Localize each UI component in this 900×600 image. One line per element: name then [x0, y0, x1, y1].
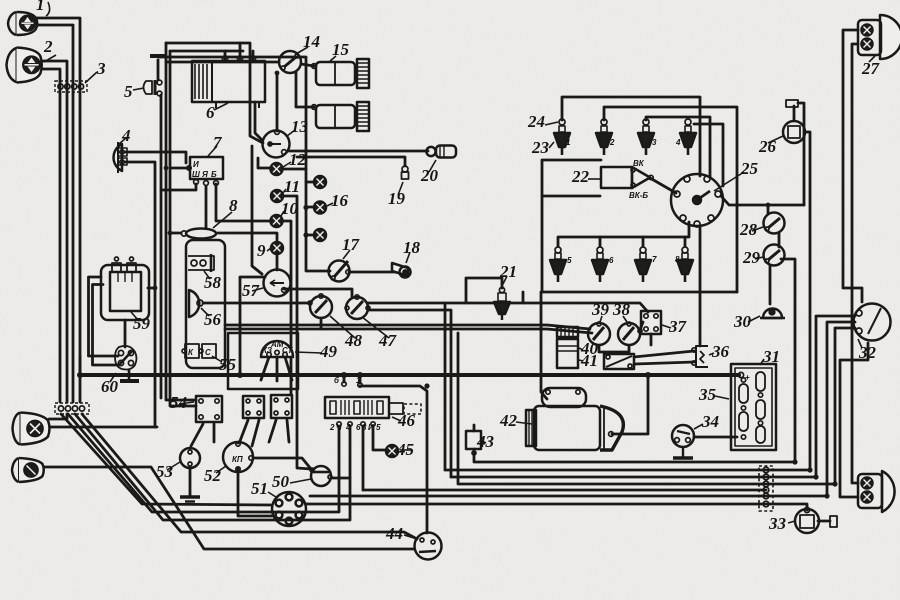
svg-text:28: 28	[739, 220, 758, 239]
svg-text:50: 50	[272, 472, 290, 491]
svg-text:14: 14	[303, 32, 320, 51]
svg-text:Ш: Ш	[192, 170, 200, 179]
svg-text:11: 11	[284, 177, 300, 196]
svg-text:56: 56	[204, 310, 222, 329]
svg-text:КП: КП	[232, 455, 243, 464]
svg-text:18: 18	[403, 238, 421, 257]
svg-text:48: 48	[344, 331, 363, 350]
svg-text:47: 47	[378, 331, 398, 350]
svg-text:СТ: СТ	[282, 346, 293, 355]
svg-text:27: 27	[861, 59, 881, 78]
svg-text:30: 30	[733, 312, 752, 331]
svg-text:16: 16	[331, 191, 349, 210]
svg-text:ВК-Б: ВК-Б	[629, 191, 648, 200]
svg-text:32: 32	[858, 343, 877, 362]
svg-text:4: 4	[345, 423, 351, 432]
svg-text:И: И	[193, 160, 199, 169]
svg-text:37: 37	[668, 317, 688, 336]
svg-text:ВК: ВК	[633, 159, 645, 168]
svg-text:1: 1	[566, 138, 571, 147]
svg-text:43: 43	[476, 432, 495, 451]
svg-text:21: 21	[499, 262, 517, 281]
svg-text:6: 6	[609, 256, 614, 265]
svg-text:24: 24	[527, 112, 545, 131]
svg-text:15: 15	[332, 40, 350, 59]
svg-text:39: 39	[591, 300, 610, 319]
svg-text:2: 2	[329, 423, 335, 432]
svg-text:45: 45	[396, 440, 415, 459]
svg-text:42: 42	[499, 411, 518, 430]
svg-text:12: 12	[289, 150, 307, 169]
svg-text:2: 2	[609, 138, 615, 147]
svg-text:1: 1	[356, 376, 361, 385]
svg-text:51: 51	[251, 479, 268, 498]
svg-text:С: С	[205, 348, 211, 357]
svg-text:КЗ: КЗ	[262, 346, 272, 355]
svg-text:4: 4	[675, 138, 681, 147]
svg-text:5: 5	[124, 82, 133, 101]
svg-text:54: 54	[170, 393, 187, 412]
svg-text:Б: Б	[211, 170, 217, 179]
svg-text:22: 22	[571, 167, 590, 186]
svg-text:58: 58	[204, 273, 222, 292]
svg-text:46: 46	[397, 411, 416, 430]
svg-text:9: 9	[257, 241, 266, 260]
svg-text:26: 26	[758, 137, 777, 156]
svg-text:35: 35	[698, 385, 717, 404]
svg-text:59: 59	[133, 314, 151, 333]
svg-text:52: 52	[204, 466, 222, 485]
svg-text:44: 44	[385, 524, 403, 543]
svg-text:20: 20	[420, 166, 439, 185]
svg-text:7: 7	[652, 255, 657, 264]
svg-text:41: 41	[580, 351, 598, 370]
svg-text:57: 57	[242, 281, 261, 300]
svg-text:1: 1	[36, 0, 45, 14]
svg-text:Я: Я	[201, 170, 208, 179]
svg-text:23: 23	[531, 138, 550, 157]
svg-text:31: 31	[762, 347, 780, 366]
svg-text:10: 10	[281, 199, 299, 218]
svg-text:17: 17	[342, 235, 361, 254]
svg-text:36: 36	[711, 342, 730, 361]
svg-text:55: 55	[219, 355, 237, 374]
svg-text:19: 19	[388, 189, 406, 208]
svg-text:33: 33	[768, 514, 787, 533]
svg-text:6: 6	[206, 103, 215, 122]
svg-text:И: И	[368, 423, 374, 432]
svg-text:25: 25	[740, 159, 759, 178]
svg-text:2: 2	[43, 37, 53, 56]
svg-text:8: 8	[675, 255, 680, 264]
svg-text:6: 6	[356, 423, 361, 432]
svg-text:34: 34	[701, 412, 719, 431]
svg-text:3: 3	[96, 59, 106, 78]
svg-text:13: 13	[291, 117, 309, 136]
svg-text:53: 53	[156, 462, 174, 481]
svg-text:5: 5	[376, 423, 381, 432]
svg-text:8: 8	[229, 196, 238, 215]
svg-text:4: 4	[121, 126, 131, 145]
svg-text:29: 29	[742, 248, 761, 267]
svg-text:3: 3	[362, 423, 367, 432]
svg-text:+: +	[745, 373, 750, 382]
svg-text:3: 3	[652, 138, 657, 147]
svg-text:5: 5	[567, 256, 572, 265]
svg-text:60: 60	[101, 377, 119, 396]
svg-text:38: 38	[612, 300, 631, 319]
svg-text:Ч: Ч	[336, 423, 342, 432]
svg-text:49: 49	[319, 342, 338, 361]
